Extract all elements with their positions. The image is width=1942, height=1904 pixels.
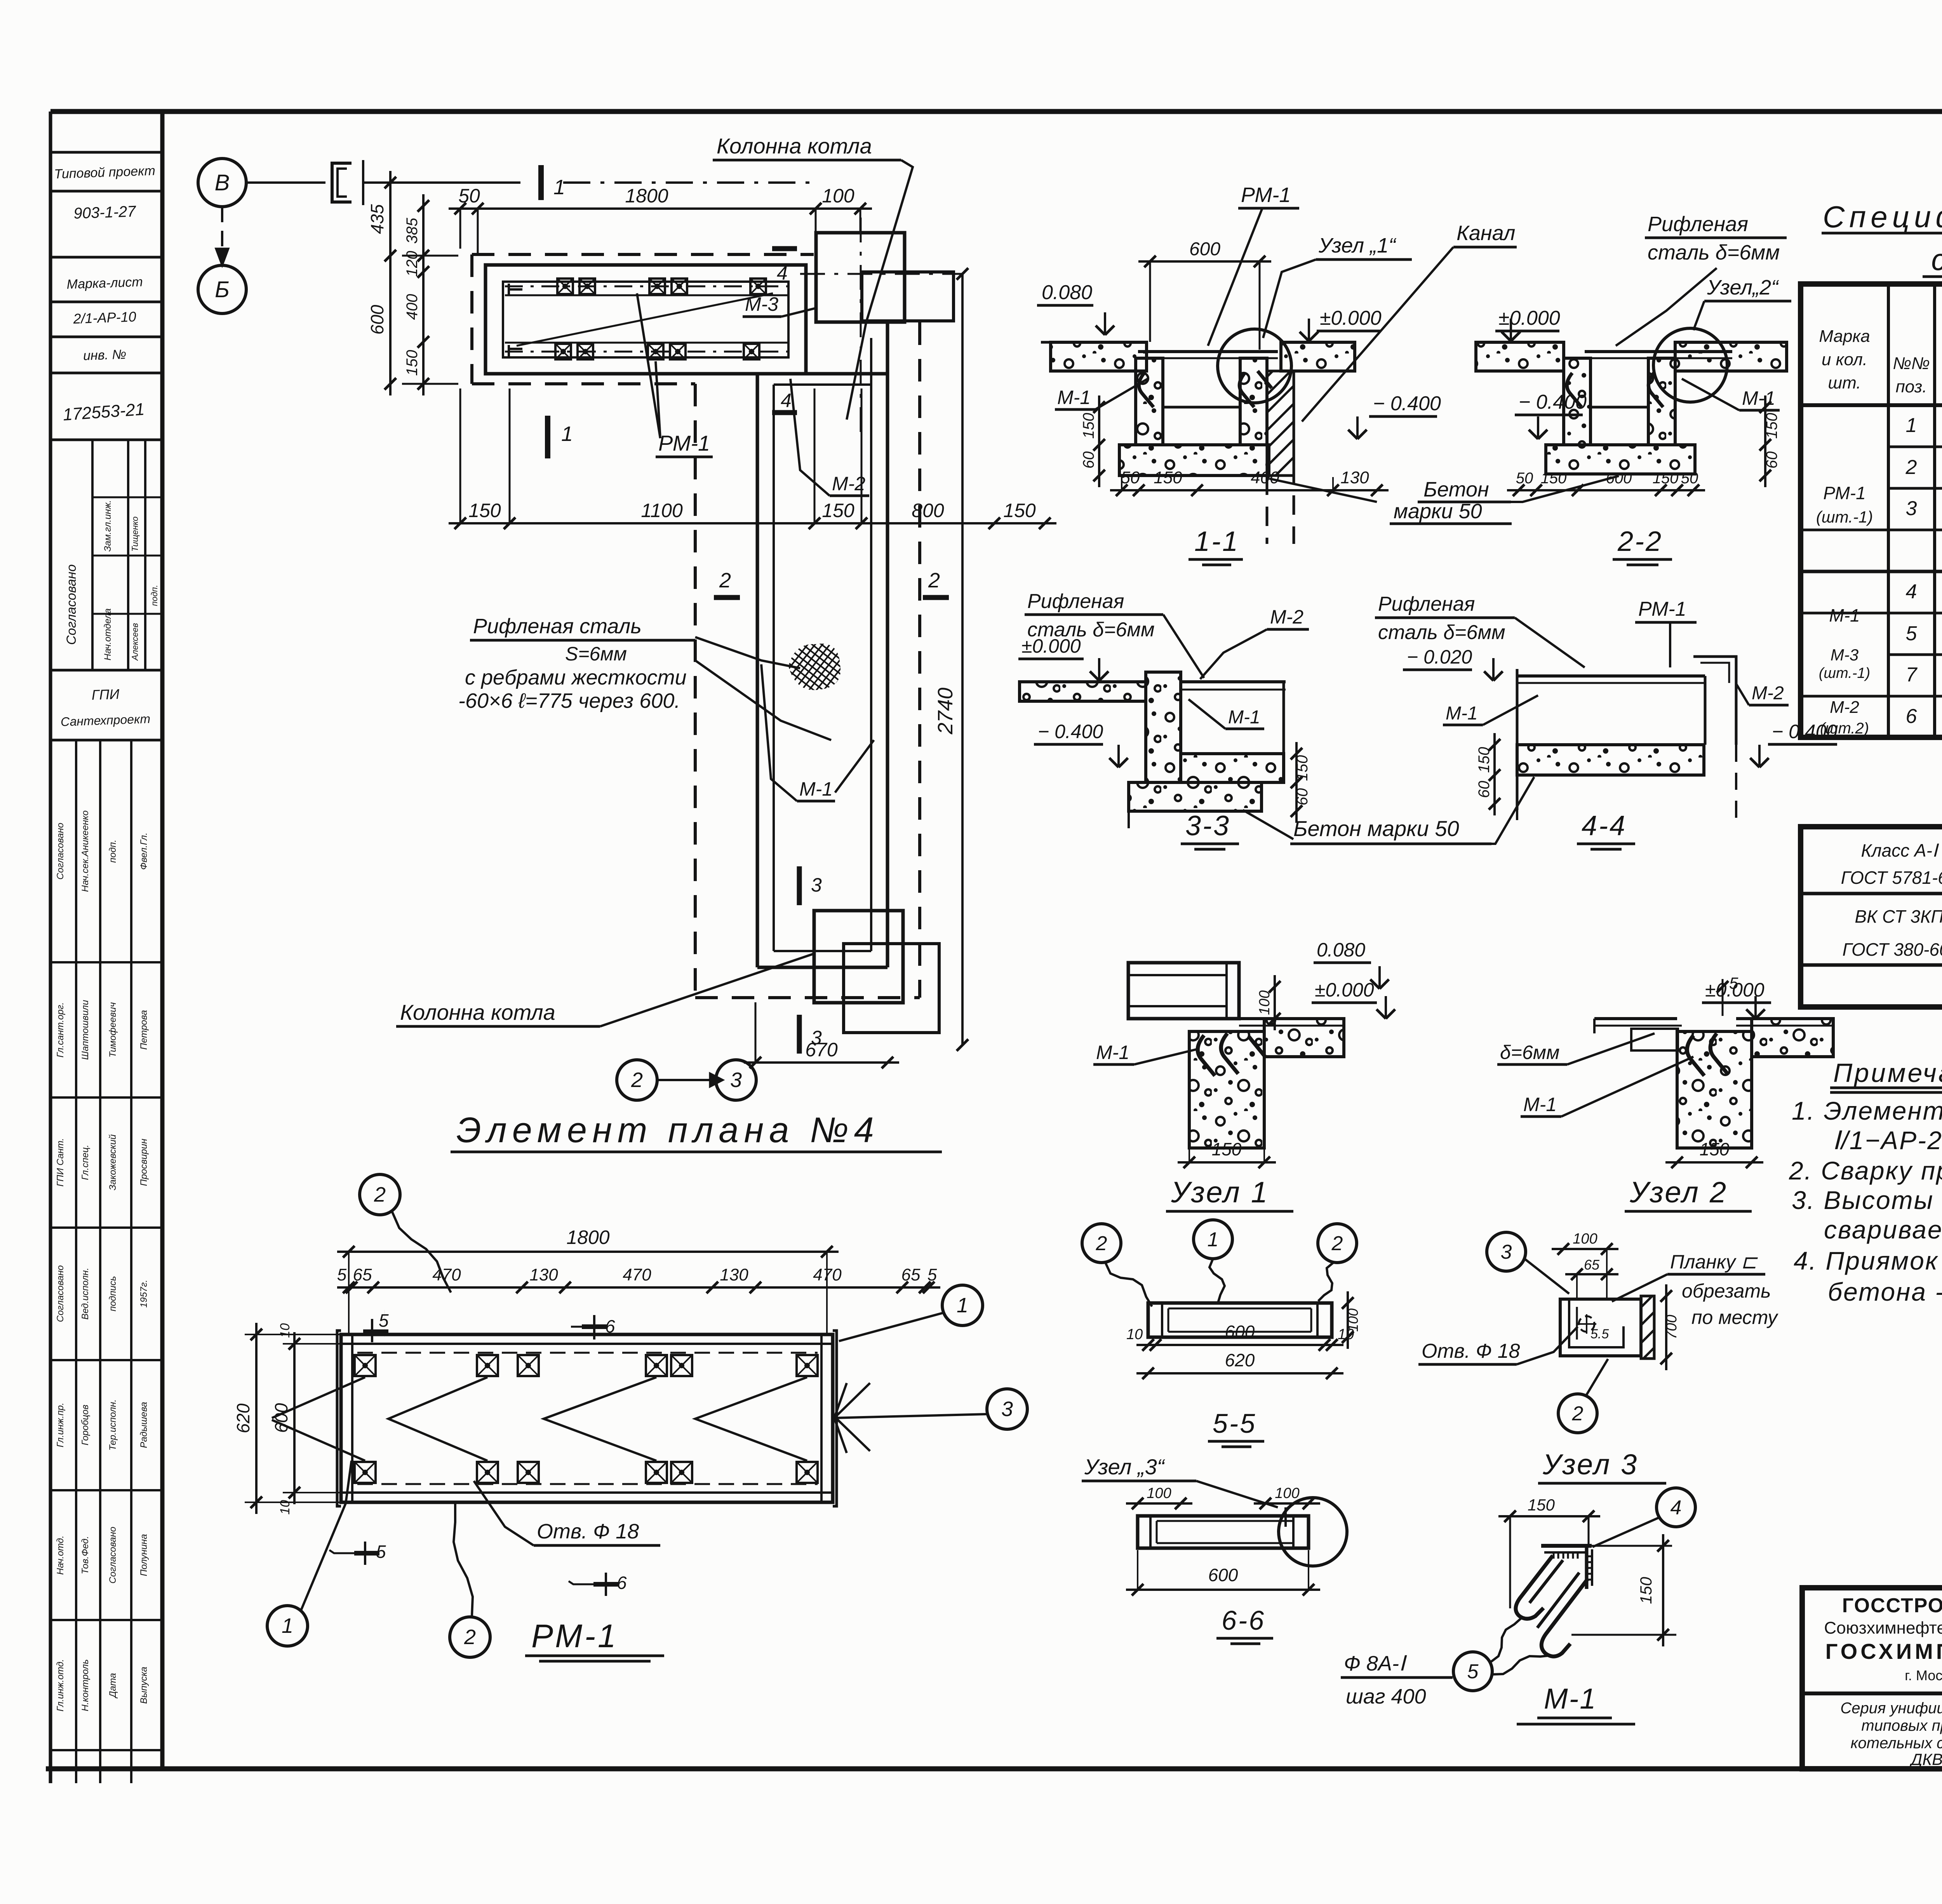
section 1-1 hatched wall right <box>1267 371 1294 476</box>
bottom dims 50/150/600/150/50 section 2-2 <box>1507 489 1705 491</box>
svg-text:800: 800 <box>912 500 944 521</box>
svg-text:100: 100 <box>1147 1485 1171 1502</box>
svg-text:1: 1 <box>282 1614 293 1637</box>
plan top channel inner <box>503 282 788 357</box>
dim 600 6-6 <box>1126 1589 1320 1591</box>
plan mid dim 150/1100/150/800/150 <box>449 522 1056 524</box>
svg-text:М-1: М-1 <box>799 778 833 800</box>
svg-text:1800: 1800 <box>566 1226 609 1248</box>
callout circles 2 1 2 over bar 5-5 <box>1082 1224 1121 1263</box>
svg-text:по месту: по месту <box>1691 1306 1778 1328</box>
svg-text:Нач.отдела: Нач.отдела <box>103 608 113 660</box>
svg-text:Тимофеевич: Тимофеевич <box>108 1002 118 1057</box>
svg-text:Марка: Марка <box>1819 327 1870 346</box>
svg-text:4: 4 <box>1906 580 1917 603</box>
section 4-4 channel plate <box>1517 674 1705 678</box>
svg-text:130: 130 <box>529 1265 558 1284</box>
dim 100 uzel 1 <box>1274 975 1276 1030</box>
hook bracket right angle <box>1585 1546 1589 1589</box>
svg-text:соединительные детали: соединительные детали <box>1931 242 1942 277</box>
section 4-4 dashes below <box>1516 775 1518 824</box>
svg-text:М-1: М-1 <box>1228 707 1260 728</box>
svg-text:(шт.-1): (шт.-1) <box>1819 665 1870 681</box>
svg-text:№№: №№ <box>1893 354 1930 373</box>
svg-text:М-3: М-3 <box>745 293 778 315</box>
anchor hooks in section 1-1 walls <box>1139 373 1154 407</box>
uzel 1 detail circle on section 1-1 <box>1218 329 1291 403</box>
uzel 2 left plate <box>1594 1017 1677 1020</box>
axis circle Б <box>198 265 246 314</box>
svg-text:Гл.инж.отд.: Гл.инж.отд. <box>55 1659 66 1712</box>
svg-text:РМ-1: РМ-1 <box>1638 598 1686 620</box>
svg-text:М-2: М-2 <box>1752 683 1784 704</box>
svg-text:4-4: 4-4 <box>1582 810 1627 841</box>
svg-text:50: 50 <box>1121 468 1140 487</box>
РМ-1 end caps <box>337 1331 341 1506</box>
bracket hole <box>1579 1316 1594 1332</box>
section mark 1 lower <box>545 416 550 458</box>
svg-text:Спецификация стали на закладны: Спецификация стали на закладные и <box>1823 200 1942 234</box>
svg-text:-60×6 ℓ=775 через 600.: -60×6 ℓ=775 через 600. <box>458 689 680 712</box>
dim 5 uzel 2 <box>1722 979 1724 1016</box>
svg-text:ДКВР: ДКВР <box>1909 1750 1942 1768</box>
svg-text:подп.: подп. <box>108 840 118 863</box>
svg-text:Алексеев: Алексеев <box>130 623 140 661</box>
svg-text:Шаптошвили: Шаптошвили <box>80 1000 90 1060</box>
svg-text:1100: 1100 <box>641 500 683 521</box>
svg-text:4. Приямок выполнять из бетона: 4. Приямок выполнять из бетона М-100. Ра… <box>1794 1246 1942 1275</box>
svg-text:Бетон: Бетон <box>1423 478 1489 501</box>
svg-text:Фвел.Гл.: Фвел.Гл. <box>139 833 149 870</box>
uzel 2 wall concrete <box>1677 1031 1752 1148</box>
section 2-2 right wall concrete <box>1648 358 1675 445</box>
svg-text:В: В <box>215 170 230 195</box>
svg-text:130: 130 <box>720 1265 748 1284</box>
uzel 1 anchor hooks <box>1198 1035 1215 1076</box>
svg-text:Выпуска: Выпуска <box>139 1667 149 1704</box>
uzel 2 slab right <box>1752 1019 1833 1057</box>
svg-text:М-3: М-3 <box>1831 646 1858 664</box>
svg-text:±0.000: ±0.000 <box>1320 307 1382 329</box>
svg-text:2: 2 <box>1572 1402 1584 1425</box>
svg-text:120: 120 <box>404 251 421 277</box>
svg-text:Узел „1“: Узел „1“ <box>1318 234 1397 257</box>
bracket channel piece <box>1560 1299 1641 1356</box>
svg-text:600: 600 <box>1208 1565 1238 1585</box>
section 4-4 bottom slab concrete <box>1517 745 1704 775</box>
svg-text:(шт.-1): (шт.-1) <box>1816 508 1873 526</box>
column axis lines top <box>860 218 862 435</box>
svg-text:РМ-1: РМ-1 <box>531 1618 618 1654</box>
svg-text:инв. №: инв. № <box>83 347 126 363</box>
dim 150 right uzel 3 (M-1) <box>1591 1545 1672 1547</box>
section mark 1 top <box>538 165 544 200</box>
svg-text:4: 4 <box>781 390 792 411</box>
svg-text:Примечания:: Примечания: <box>1833 1058 1942 1088</box>
plan vertical channel inner <box>773 385 775 951</box>
svg-text:Серия унифицированных: Серия унифицированных <box>1840 1700 1942 1717</box>
svg-text:2. Сварку производить электрод: 2. Сварку производить электродами Э-42 <box>1789 1156 1942 1185</box>
svg-text:903-1-27: 903-1-27 <box>73 203 137 222</box>
svg-text:РМ-1: РМ-1 <box>658 431 710 455</box>
svg-text:Рифленая сталь: Рифленая сталь <box>473 615 642 638</box>
svg-text:150: 150 <box>1541 470 1567 487</box>
svg-text:470: 470 <box>813 1265 842 1284</box>
svg-text:2: 2 <box>1096 1232 1107 1255</box>
svg-text:100: 100 <box>1345 1308 1361 1332</box>
callout circle 1 right <box>942 1285 983 1326</box>
svg-text:ГОСХИМПРОЕКТ: ГОСХИМПРОЕКТ <box>1825 1639 1942 1664</box>
drawing sheet border frame <box>50 109 1942 114</box>
svg-text:3: 3 <box>811 874 822 896</box>
callout circle 2 under bracket <box>1558 1394 1597 1433</box>
svg-text:150: 150 <box>1080 413 1097 439</box>
svg-text:700: 700 <box>1664 1315 1680 1339</box>
svg-text:65: 65 <box>901 1265 921 1284</box>
section 1-1 concrete base <box>1119 445 1269 476</box>
callout circle 3 bracket <box>1487 1232 1526 1271</box>
svg-text:Согласовано: Согласовано <box>64 564 79 645</box>
section 2-2 left wall concrete <box>1564 358 1590 445</box>
svg-text:60: 60 <box>1294 788 1311 806</box>
svg-text:− 0.400: − 0.400 <box>1373 392 1441 415</box>
dim 620/600/10 left РМ-1 <box>255 1323 258 1514</box>
svg-text:2/1-АР-10: 2/1-АР-10 <box>73 308 136 327</box>
svg-text:65: 65 <box>353 1265 372 1284</box>
axis line between В and Б with arrow <box>221 207 223 256</box>
svg-text:1. Элемент плана N4замаркирова: 1. Элемент плана N4замаркирован на листе <box>1792 1096 1942 1125</box>
section 1-1 left floor slab <box>1051 342 1147 371</box>
svg-text:шт.: шт. <box>1828 373 1861 392</box>
uzel 1 channel piece <box>1128 963 1239 1019</box>
svg-text:Б: Б <box>215 277 230 302</box>
svg-text:δ=6мм: δ=6мм <box>1500 1042 1559 1063</box>
svg-text:Тищенко: Тищенко <box>130 516 140 552</box>
svg-text:Класс А-Ⅰ: Класс А-Ⅰ <box>1861 840 1939 861</box>
plan left dim chain 385/120/400/150 <box>422 194 425 395</box>
specification table grid <box>1801 284 1942 737</box>
section 1-1 right wall concrete <box>1240 358 1267 445</box>
svg-text:2: 2 <box>1905 456 1917 479</box>
svg-text:свариваемых элементов.: свариваемых элементов. <box>1824 1215 1942 1244</box>
anchor hooks in section 2-2 walls <box>1567 373 1582 407</box>
svg-text:Н.контроль: Н.контроль <box>80 1659 90 1711</box>
svg-text:М-1: М-1 <box>1829 605 1860 625</box>
svg-text:М-1: М-1 <box>1446 703 1478 724</box>
vyborka table grid <box>1801 827 1942 1007</box>
section 1-1 left wall concrete <box>1136 358 1163 445</box>
section 1-1 channel frame plate <box>1138 350 1278 353</box>
svg-text:600: 600 <box>271 1403 291 1433</box>
svg-text:г. Москва: г. Москва <box>1905 1667 1942 1683</box>
svg-text:с ребрами жесткости: с ребрами жесткости <box>465 666 687 689</box>
section 4-4 M-2 angle right <box>1693 657 1736 683</box>
channel steel symbol on axis line <box>246 181 325 184</box>
plan dashed pit outline <box>472 253 814 256</box>
uzel 1 wall concrete <box>1189 1031 1264 1148</box>
dim 700 bracket <box>1665 1284 1667 1370</box>
plan top channel bolt band lines <box>505 294 788 296</box>
svg-text:Отв. Ф 18: Отв. Ф 18 <box>537 1520 639 1543</box>
svg-text:172553-21: 172553-21 <box>62 400 145 425</box>
svg-text:ГОССТРОЙ СССР: ГОССТРОЙ СССР <box>1842 1594 1942 1617</box>
svg-text:М-2: М-2 <box>1830 698 1859 717</box>
svg-text:100: 100 <box>1275 1485 1299 1502</box>
svg-text:S=6мм: S=6мм <box>565 643 627 665</box>
svg-text:Отв. Ф 18: Отв. Ф 18 <box>1422 1340 1520 1362</box>
svg-text:Типовой проект: Типовой проект <box>54 163 156 181</box>
svg-text:50: 50 <box>1516 470 1533 487</box>
svg-text:100: 100 <box>822 185 854 207</box>
svg-text:ГОСТ 380-60*: ГОСТ 380-60* <box>1843 939 1942 960</box>
svg-text:65: 65 <box>1584 1257 1600 1273</box>
svg-text:0.080: 0.080 <box>1317 939 1365 961</box>
svg-text:обрезать: обрезать <box>1682 1280 1771 1302</box>
plan channel corner joint <box>757 372 887 376</box>
hook strap upper with J-hook <box>1516 1556 1553 1619</box>
svg-text:2: 2 <box>374 1183 386 1206</box>
dim 150 uzel 2 <box>1665 1161 1763 1164</box>
bar 6-6 channel plan <box>1138 1516 1309 1548</box>
svg-text:60: 60 <box>1763 451 1780 469</box>
svg-text:М-2: М-2 <box>832 473 865 495</box>
6-6 right end tick <box>1284 1507 1287 1527</box>
svg-text:3: 3 <box>730 1068 742 1092</box>
svg-text:и кол.: и кол. <box>1822 350 1867 369</box>
svg-text:Узел 1: Узел 1 <box>1171 1176 1269 1209</box>
section 2-2 left floor slab <box>1476 342 1564 371</box>
svg-text:Сантехпроект: Сантехпроект <box>61 712 151 729</box>
dim 670 bottom <box>744 1061 899 1064</box>
svg-text:М-1: М-1 <box>1096 1042 1129 1063</box>
svg-text:Гл.сант.орг.: Гл.сант.орг. <box>55 1002 66 1057</box>
bottom dims 50/150/400/130 section 1-1 <box>1110 489 1389 491</box>
svg-text:Тов.Фед.: Тов.Фед. <box>80 1536 90 1575</box>
svg-text:150: 150 <box>1212 1139 1242 1159</box>
plan top channel left end angles <box>509 288 522 291</box>
bar 5-5 channel plan <box>1148 1303 1332 1337</box>
svg-text:6: 6 <box>1906 705 1917 728</box>
section 2-2 channel top plate <box>1585 350 1732 353</box>
svg-text:Рифленая: Рифленая <box>1027 590 1124 613</box>
svg-text:2: 2 <box>719 569 731 592</box>
plan top channel outer <box>486 265 806 374</box>
svg-text:60: 60 <box>1476 781 1493 798</box>
circles 2 and 3 bottom of plan <box>617 1060 657 1100</box>
uzel 1 plate over wall <box>1239 1017 1344 1020</box>
svg-text:Рифленая: Рифленая <box>1378 593 1475 615</box>
svg-text:1: 1 <box>553 176 565 199</box>
svg-text:Элемент плана №4: Элемент плана №4 <box>456 1110 879 1150</box>
svg-text:РМ-1: РМ-1 <box>1241 183 1291 207</box>
callout circle 1 bottom-left <box>267 1606 308 1646</box>
svg-text:М-1: М-1 <box>1057 387 1091 408</box>
svg-text:1: 1 <box>957 1294 968 1317</box>
svg-text:150: 150 <box>1653 470 1679 487</box>
svg-text:5: 5 <box>1467 1660 1479 1683</box>
section 2-2 concrete base <box>1546 445 1695 474</box>
svg-text:шаг 400: шаг 400 <box>1346 1685 1426 1708</box>
svg-text:2: 2 <box>631 1068 643 1092</box>
svg-text:ГПИ: ГПИ <box>91 686 120 703</box>
svg-text:Ⅰ/1−АР-2 .: Ⅰ/1−АР-2 . <box>1832 1126 1942 1155</box>
svg-text:Гл.спец.: Гл.спец. <box>80 1144 90 1180</box>
svg-text:400: 400 <box>404 294 421 320</box>
РМ-1 bolt squares bottom row <box>355 1462 376 1483</box>
uzel 2 detail circle on section 2-2 <box>1653 328 1727 402</box>
plan top-right column plate <box>862 272 954 321</box>
svg-text:Закожевский: Закожевский <box>108 1134 118 1190</box>
svg-text:±0.000: ±0.000 <box>1498 307 1560 329</box>
svg-text:Марка-лист: Марка-лист <box>66 275 143 292</box>
svg-text:60: 60 <box>1080 451 1097 469</box>
svg-text:Согласовано: Согласовано <box>55 823 66 880</box>
plan bottom column square <box>814 911 903 1003</box>
svg-text:Планку ⊏: Планку ⊏ <box>1670 1251 1758 1273</box>
dim 1800 РМ-1 <box>337 1251 839 1253</box>
plan top channel bolts bottom row <box>555 344 571 359</box>
svg-text:сталь δ=6мм: сталь δ=6мм <box>1648 241 1780 264</box>
leaders from riffled steel text to mesh <box>695 637 800 668</box>
svg-text:2740: 2740 <box>934 688 957 735</box>
svg-text:435: 435 <box>367 204 387 234</box>
left stamp strip middle table <box>50 439 162 441</box>
plan vertical channel outer <box>756 374 759 967</box>
svg-text:3: 3 <box>1906 497 1917 520</box>
svg-text:150: 150 <box>404 350 421 376</box>
dim 600 with 10 overhangs 5-5 <box>1136 1344 1343 1346</box>
plan top channel bolts top row <box>557 279 573 294</box>
РМ-1 plate inner dashed lines <box>357 1352 818 1354</box>
svg-text:− 0.020: − 0.020 <box>1407 646 1472 668</box>
callout circle 5 <box>1453 1652 1492 1691</box>
svg-text:470: 470 <box>623 1265 651 1284</box>
svg-text:0.080: 0.080 <box>1042 281 1092 304</box>
svg-text:5: 5 <box>1906 622 1918 645</box>
svg-text:1: 1 <box>561 422 573 446</box>
svg-text:Горобцов: Горобцов <box>80 1405 90 1446</box>
svg-text:5: 5 <box>337 1265 347 1284</box>
svg-text:±0.000: ±0.000 <box>1315 979 1374 1001</box>
section 2-2 right floor slab <box>1675 342 1787 371</box>
hook strap lower with J-hook <box>1542 1579 1588 1657</box>
svg-text:Зам.гл.инж.: Зам.гл.инж. <box>103 500 113 552</box>
section mark 3 upper <box>797 866 802 905</box>
svg-text:РМ-1: РМ-1 <box>1823 483 1865 503</box>
svg-text:Ф 8А-Ⅰ: Ф 8А-Ⅰ <box>1344 1652 1407 1675</box>
plan top-right column square <box>816 233 905 322</box>
svg-text:150: 150 <box>1154 468 1182 487</box>
section 3-3 footing <box>1129 782 1262 811</box>
left stamp strip GPI cell <box>50 739 162 742</box>
dim 100 right 5-5 <box>1347 1291 1349 1349</box>
svg-text:Полунина: Полунина <box>139 1534 149 1577</box>
svg-text:поз.: поз. <box>1896 377 1927 396</box>
svg-text:котельных с котлами: котельных с котлами <box>1851 1735 1942 1752</box>
plan top dim 50/1800/100 <box>449 207 872 210</box>
svg-text:2: 2 <box>928 569 940 592</box>
svg-text:6-6: 6-6 <box>1222 1605 1265 1636</box>
svg-text:150: 150 <box>1003 500 1036 521</box>
svg-text:1: 1 <box>1906 414 1917 437</box>
plan bottom column plate <box>844 944 939 1033</box>
svg-text:Узел„2“: Узел„2“ <box>1707 276 1779 299</box>
svg-text:±0.000: ±0.000 <box>1021 635 1081 657</box>
dim 100 bracket <box>1552 1248 1618 1250</box>
dim 620 5-5 <box>1136 1372 1343 1374</box>
svg-text:ГОСТ 5781-61: ГОСТ 5781-61 <box>1841 868 1942 888</box>
svg-text:1-1: 1-1 <box>1194 526 1239 557</box>
section mark 4 upper <box>772 246 797 251</box>
section 3-3 channel plate <box>1181 680 1286 683</box>
vertical dim 2740 <box>961 274 964 1045</box>
uzel 2 anchor hooks <box>1687 1035 1704 1076</box>
svg-text:Колонна котла: Колонна котла <box>400 1000 555 1024</box>
svg-text:Согласовано: Согласовано <box>108 1527 118 1583</box>
РМ-1 bolt leader chevrons <box>388 1377 487 1461</box>
uzel 1 slab right <box>1264 1019 1344 1057</box>
uzel 3 circle on 6-6 <box>1279 1498 1347 1566</box>
svg-text:Союзхимнефтестройпроект: Союзхимнефтестройпроект <box>1824 1618 1942 1637</box>
dim 150 uzel 1 <box>1178 1161 1276 1164</box>
svg-text:130: 130 <box>1340 468 1369 487</box>
dim 150 top uzel 3 (M-1) <box>1498 1515 1600 1517</box>
svg-text:100: 100 <box>1256 990 1273 1015</box>
svg-text:600: 600 <box>367 305 387 334</box>
svg-text:3-3: 3-3 <box>1185 810 1230 841</box>
svg-text:подп.: подп. <box>150 585 159 606</box>
svg-text:− 0.400: − 0.400 <box>1772 721 1837 742</box>
section mark 5 top РМ-1 <box>384 1310 385 1337</box>
svg-text:150: 150 <box>468 500 501 521</box>
svg-text:Тер.исполн.: Тер.исполн. <box>108 1399 118 1451</box>
section mark 3 lower <box>797 1015 802 1054</box>
title block outer frame <box>1802 1588 1942 1769</box>
plan left dim chain 435/600 <box>389 171 392 395</box>
svg-text:Дата: Дата <box>108 1673 118 1698</box>
svg-text:150: 150 <box>1476 747 1493 773</box>
section 1-1 trough interior <box>1163 406 1240 409</box>
РМ-1 plate top flange <box>351 1334 353 1502</box>
dim 65 bracket <box>1565 1273 1618 1275</box>
svg-text:50: 50 <box>458 185 480 207</box>
svg-text:сталь δ=6мм: сталь δ=6мм <box>1378 621 1505 644</box>
svg-text:Колонна котла: Колонна котла <box>717 134 872 158</box>
svg-text:400: 400 <box>1251 468 1279 487</box>
svg-text:600: 600 <box>1225 1322 1255 1342</box>
svg-text:М-1: М-1 <box>1544 1683 1597 1715</box>
dims 150/60 left of 4-4 <box>1493 733 1496 815</box>
hook bracket top plate <box>1541 1544 1592 1548</box>
svg-text:2: 2 <box>464 1625 476 1649</box>
svg-text:3: 3 <box>811 1027 822 1049</box>
svg-text:470: 470 <box>432 1265 461 1284</box>
section 3-3 interior bottom <box>1181 753 1284 755</box>
svg-text:2: 2 <box>1331 1232 1343 1255</box>
section 2-2 trough interior bottom <box>1590 406 1648 409</box>
svg-text:Нач.сек.Аникеенко: Нач.сек.Аникеенко <box>80 810 90 892</box>
svg-text:подпись: подпись <box>108 1276 118 1312</box>
axis circle В <box>198 159 246 207</box>
svg-text:5: 5 <box>379 1310 389 1331</box>
svg-text:Гл.инж.пр.: Гл.инж.пр. <box>55 1402 66 1447</box>
left stamp strip row lines <box>50 151 162 154</box>
svg-text:5.5: 5.5 <box>1590 1327 1609 1341</box>
svg-text:Просвирин: Просвирин <box>139 1139 149 1186</box>
svg-text:600: 600 <box>1189 239 1220 260</box>
dims 150/60 left of section 1-1 <box>1098 395 1100 487</box>
svg-text:3. Высоты сварных швов принять: 3. Высоты сварных швов принять по толщин… <box>1792 1186 1942 1214</box>
